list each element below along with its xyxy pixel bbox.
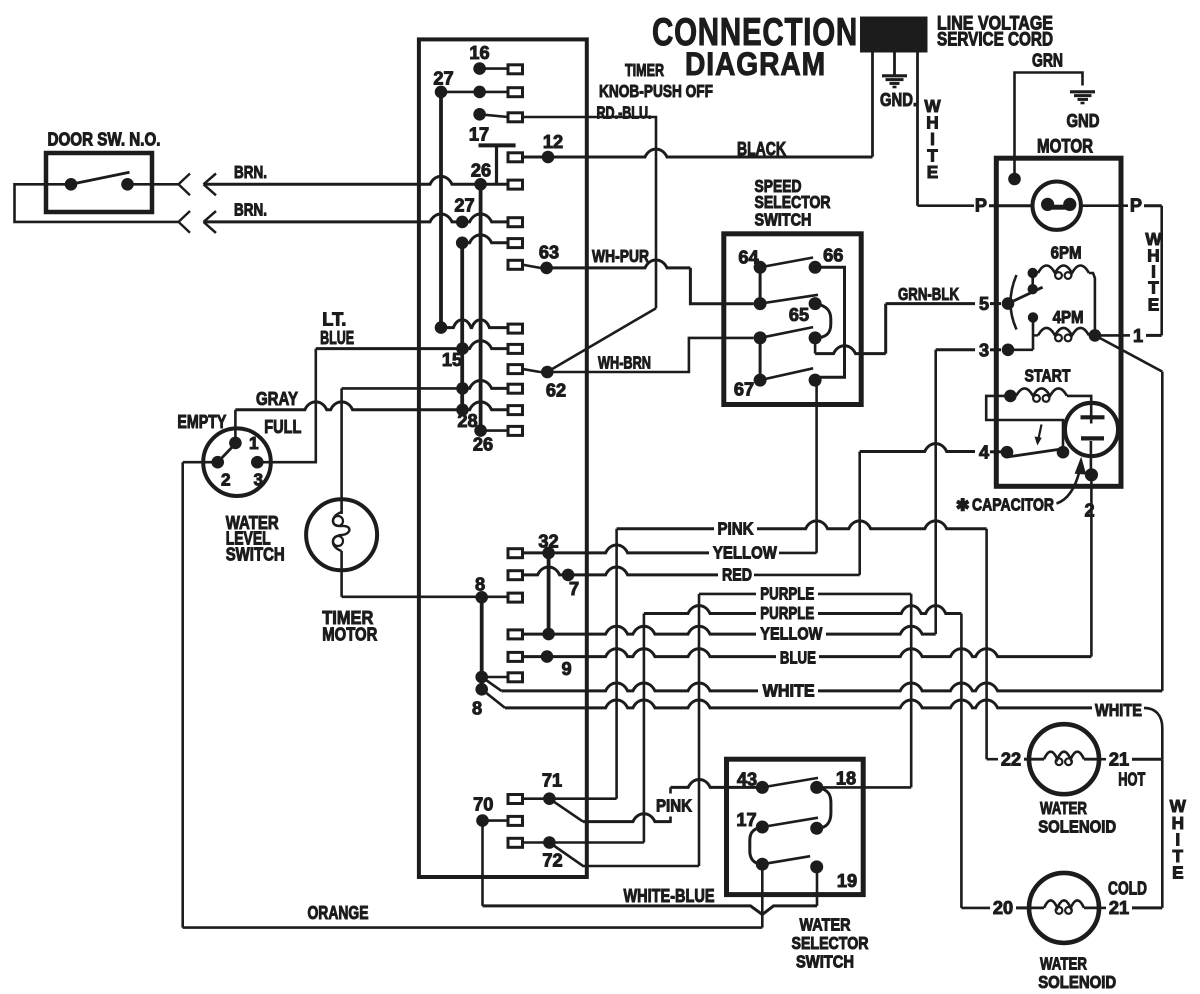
- node door left: [65, 178, 78, 191]
- svg-text:YELLOW: YELLOW: [713, 543, 777, 563]
- wire pink to 43 segment A: [583, 814, 671, 822]
- wire PURPLE2 left riser: [643, 614, 646, 843]
- wire 72 to purple riser: [522, 841, 644, 844]
- node 12: [542, 151, 555, 164]
- wire hot 21: [1098, 758, 1106, 761]
- cord ground stub: [893, 53, 896, 76]
- wire GRAY: [235, 402, 508, 410]
- lug 72: [508, 838, 523, 847]
- svg-text:GRN: GRN: [1032, 51, 1063, 71]
- wire YELLOW2 left part: [508, 626, 756, 634]
- node gray row: [456, 404, 469, 417]
- wire PURPLE1 left part: [699, 593, 756, 596]
- wire 1: [1121, 334, 1130, 337]
- wire white1 diagonal to motor 1: [1095, 335, 1162, 371]
- node 32: [542, 547, 555, 560]
- capacitor plate bottom: [1081, 436, 1104, 440]
- wire wl1 up: [234, 410, 237, 443]
- svg-text:P: P: [975, 196, 987, 216]
- svg-text:WH-PUR: WH-PUR: [592, 246, 649, 266]
- protector link: [1052, 205, 1066, 210]
- wire 6PM to node 1: [1089, 273, 1095, 335]
- wire WHITE-BLUE drop from 70: [481, 821, 484, 906]
- svg-text:2: 2: [221, 470, 231, 490]
- node 7: [562, 569, 575, 582]
- svg-text:LT.: LT.: [322, 310, 346, 330]
- svg-text:22: 22: [1001, 750, 1021, 770]
- wire 17 elbow: [750, 827, 763, 864]
- wire PURPLE1 left riser: [698, 594, 701, 866]
- wire 20: [961, 907, 990, 910]
- blade 4: [1009, 449, 1065, 457]
- node door right: [121, 178, 134, 191]
- wire timer motor to timer: [342, 387, 463, 390]
- svg-text:PINK: PINK: [656, 796, 693, 816]
- lug 62: [508, 365, 523, 374]
- contact 6PM: [1028, 268, 1038, 278]
- node 70: [476, 814, 489, 827]
- svg-text:E: E: [1172, 863, 1183, 883]
- motor ground symbol: [1070, 90, 1095, 93]
- svg-text:1: 1: [249, 433, 259, 453]
- wire PINK top left part: [617, 527, 714, 530]
- svg-text:9: 9: [561, 659, 571, 679]
- node mid-right: [810, 822, 823, 835]
- svg-text:16: 16: [469, 43, 489, 63]
- wire red riser to motor 4: [858, 452, 861, 575]
- node wl 2: [211, 456, 224, 469]
- svg-text:1: 1: [1133, 326, 1143, 346]
- wire terminal RD-BLU: [480, 114, 508, 117]
- node 28: [474, 424, 487, 437]
- svg-text:SWITCH: SWITCH: [226, 544, 285, 564]
- wire 4 to motor: [860, 444, 975, 452]
- node 27 top: [435, 86, 448, 99]
- timer bus A (27): [439, 92, 443, 326]
- wire 3 to 4PM contact: [1008, 317, 1033, 349]
- node 3: [1002, 344, 1015, 357]
- svg-text:WATER: WATER: [800, 915, 851, 935]
- wire BRN to 27: [204, 214, 509, 222]
- lug 8 top: [508, 593, 523, 602]
- node 5: [1002, 297, 1015, 310]
- node 8B: [475, 683, 488, 696]
- wire RED left part: [508, 567, 718, 575]
- wire door left loop: [15, 184, 179, 222]
- door switch box: [46, 153, 152, 212]
- lug 70: [508, 816, 523, 825]
- svg-text:E: E: [1148, 295, 1159, 315]
- svg-text:4PM: 4PM: [1053, 307, 1084, 327]
- lug 7: [508, 571, 523, 580]
- svg-text:PURPLE: PURPLE: [760, 583, 814, 603]
- lug 27 second: [508, 218, 523, 227]
- svg-text:19: 19: [837, 871, 857, 891]
- node 17: [756, 821, 769, 834]
- svg-text:ORANGE: ORANGE: [308, 903, 369, 923]
- wire 71 to pink riser: [522, 797, 617, 800]
- node 67: [754, 374, 767, 387]
- svg-text:3: 3: [254, 470, 264, 490]
- svg-text:✱: ✱: [956, 498, 969, 515]
- node 71: [543, 792, 556, 805]
- wire wl2 left: [183, 461, 218, 464]
- wire YELLOW(32) left part: [508, 545, 709, 553]
- svg-text:43: 43: [737, 770, 757, 790]
- timer bus 32-yellow: [547, 553, 551, 634]
- lug 9: [508, 652, 523, 661]
- svg-text:BRN.: BRN.: [234, 162, 267, 182]
- line cord plug (black block): [860, 17, 928, 53]
- wire orange riser from selector: [761, 864, 764, 927]
- wire door right out: [128, 183, 179, 186]
- node 8A: [475, 671, 488, 684]
- node rd-blu: [473, 108, 486, 121]
- wire timer motor bottom: [340, 551, 343, 597]
- wire lug to 62: [522, 369, 541, 372]
- node 15: [456, 342, 469, 355]
- wire WHITE drop from plug: [916, 53, 919, 206]
- node centrifugal right: [1057, 446, 1070, 459]
- lug 26: [508, 180, 523, 189]
- tick pink segment A: [669, 817, 672, 823]
- capacitor plate top: [1081, 415, 1105, 419]
- wire BLUE right part: [819, 649, 1091, 657]
- lug 16: [508, 65, 523, 74]
- wire WHITE to motor P: [918, 204, 975, 207]
- blade 17: [762, 818, 818, 827]
- wire WHITE1 diagonal: [482, 677, 502, 691]
- cord ground symbol: [882, 74, 907, 77]
- lug 28: [508, 426, 523, 435]
- wire blue riser to capacitor 2: [1090, 477, 1093, 656]
- svg-text:BRN.: BRN.: [234, 200, 267, 220]
- svg-text:GND.: GND.: [880, 90, 917, 110]
- lug 15: [508, 344, 523, 353]
- blade 67: [760, 368, 813, 380]
- svg-text:26: 26: [473, 435, 493, 455]
- wire left riser (orange): [181, 462, 184, 927]
- svg-text:RD.-BLU.: RD.-BLU.: [597, 103, 652, 123]
- node protector right: [1063, 198, 1076, 211]
- svg-text:GRN-BLK: GRN-BLK: [898, 284, 959, 304]
- svg-text:71: 71: [542, 771, 562, 791]
- wire node1 to terminal 1: [1095, 334, 1121, 337]
- connector chevron BRN2: [179, 211, 191, 233]
- wire YELLOW(32) right part: [779, 552, 817, 555]
- wire capacitor to 2: [1090, 441, 1093, 477]
- svg-text:START: START: [1025, 366, 1071, 386]
- terminal 17 tap stem: [495, 145, 498, 184]
- svg-text:21: 21: [1109, 898, 1129, 918]
- svg-text:6PM: 6PM: [1051, 243, 1082, 263]
- wire PURPLE2 right riser to cold 20: [960, 614, 963, 908]
- svg-text:8: 8: [472, 699, 482, 719]
- wire WHITE1 right part: [818, 683, 1162, 691]
- timer motor circle: [306, 499, 377, 570]
- svg-text:MOTOR: MOTOR: [322, 625, 377, 645]
- svg-text:27: 27: [433, 69, 453, 89]
- svg-text:63: 63: [539, 243, 559, 263]
- svg-text:SERVICE CORD: SERVICE CORD: [937, 30, 1053, 51]
- node 66: [809, 261, 822, 274]
- lug 71: [508, 795, 523, 804]
- wire 18 elbow: [817, 787, 831, 828]
- coil 6PM: [1038, 266, 1089, 274]
- blade water level: [218, 442, 238, 463]
- svg-text:EMPTY: EMPTY: [177, 412, 226, 432]
- node 43: [756, 781, 769, 794]
- wire 3 to motor: [936, 348, 975, 351]
- node 9: [541, 650, 554, 663]
- water level switch circle: [203, 428, 271, 496]
- svg-text:SWITCH: SWITCH: [796, 952, 854, 972]
- svg-text:67: 67: [734, 380, 754, 400]
- wire GRN-BLK to motor 5: [886, 302, 975, 305]
- hot water solenoid circle: [1029, 724, 1099, 794]
- svg-text:2: 2: [1084, 501, 1094, 521]
- wire 70 to lug: [483, 819, 509, 822]
- svg-text:20: 20: [993, 898, 1013, 918]
- contact 4PM: [1028, 312, 1038, 322]
- wire 8A to lug: [482, 676, 508, 679]
- svg-text:WHITE: WHITE: [763, 680, 815, 700]
- wire wl3 (full) to LT.BLUE: [257, 349, 316, 463]
- wire cold 21: [1098, 907, 1106, 910]
- wire BLACK: [522, 149, 873, 157]
- coil START: [1016, 388, 1067, 396]
- svg-text:17: 17: [736, 810, 756, 830]
- wire 65 elbow: [815, 304, 831, 338]
- svg-text:21: 21: [1109, 750, 1129, 770]
- node 26: [474, 178, 487, 191]
- lug yellow2: [508, 630, 523, 639]
- wire P to 1 link: [1160, 206, 1163, 336]
- blade 43: [762, 778, 818, 788]
- wire timer motor bottom to 8: [342, 595, 508, 598]
- svg-text:P: P: [1130, 196, 1142, 216]
- svg-text:17: 17: [469, 125, 489, 145]
- node 18: [810, 781, 823, 794]
- svg-text:4: 4: [979, 443, 990, 463]
- wire ORANGE: [183, 926, 763, 929]
- svg-text:18: 18: [836, 769, 856, 789]
- svg-text:WATER: WATER: [1040, 798, 1087, 818]
- timer bus B: [460, 243, 464, 410]
- svg-text:SOLENOID: SOLENOID: [1038, 816, 1116, 836]
- wire yellow2 riser to motor 3: [934, 350, 937, 634]
- lug 32: [508, 549, 523, 558]
- node 63: [540, 262, 553, 275]
- contact mid: [1028, 284, 1038, 294]
- wire pink to 43 segment B: [671, 780, 727, 788]
- wire white link 21-21: [1161, 759, 1164, 908]
- wire PURPLE2 left part: [644, 606, 756, 614]
- svg-text:PURPLE: PURPLE: [760, 603, 814, 623]
- node 4: [1001, 446, 1014, 459]
- wire row 2: [441, 91, 508, 94]
- node 67-right: [809, 374, 822, 387]
- svg-text:27: 27: [454, 196, 474, 216]
- lug row2: [508, 88, 523, 97]
- blade 64: [760, 258, 813, 268]
- node wl 1: [229, 437, 242, 450]
- svg-text:65: 65: [789, 305, 809, 325]
- node speed low-right: [809, 331, 822, 344]
- wire GRN from motor frame to ground: [1015, 73, 1083, 180]
- coil cold solenoid: [1044, 900, 1084, 908]
- node row2: [473, 86, 486, 99]
- tick pink segment B: [669, 787, 672, 793]
- svg-text:72: 72: [542, 851, 562, 871]
- timer bus C (26-28): [479, 184, 483, 430]
- svg-text:WH-BRN: WH-BRN: [598, 353, 651, 373]
- wire PINK riser: [615, 529, 618, 799]
- svg-text:HOT: HOT: [1118, 770, 1145, 790]
- wire BLACK drop from plug: [871, 53, 874, 157]
- wire white1 riser: [1161, 372, 1164, 691]
- wire WHITE2 hook to hot 21: [1144, 708, 1162, 759]
- speed selector switch box: [724, 234, 861, 405]
- svg-text:SELECTOR: SELECTOR: [792, 933, 869, 953]
- wire row 28: [481, 429, 508, 432]
- node 8 top: [475, 591, 488, 604]
- svg-text:62: 62: [546, 381, 566, 401]
- node start-left: [1004, 390, 1017, 403]
- cold water solenoid circle: [1029, 873, 1099, 943]
- lug gray row: [508, 406, 523, 415]
- wire purple1 from 72: [549, 843, 699, 867]
- svg-text:26: 26: [471, 161, 491, 181]
- svg-text:WHITE-BLUE: WHITE-BLUE: [624, 886, 715, 906]
- wire P right: [1081, 204, 1128, 207]
- node motor 1: [1089, 329, 1102, 342]
- svg-text:BLUE: BLUE: [320, 328, 354, 348]
- svg-text:YELLOW: YELLOW: [760, 624, 822, 644]
- node motor frame ground: [1008, 173, 1021, 186]
- svg-text:BLACK: BLACK: [737, 139, 786, 159]
- capacitor circle: [1065, 403, 1118, 456]
- lug timer-motor row: [508, 384, 523, 393]
- blade door switch: [71, 172, 130, 184]
- svg-text:RED: RED: [722, 565, 752, 585]
- svg-text:BLUE: BLUE: [780, 647, 816, 667]
- svg-text:5: 5: [979, 294, 989, 314]
- svg-text:COLD: COLD: [1108, 879, 1147, 899]
- water selector switch box: [727, 759, 864, 894]
- node 62: [541, 366, 554, 379]
- node low-left: [756, 858, 769, 871]
- node 64: [754, 261, 767, 274]
- wire WHITE-BLUE: [483, 906, 818, 915]
- wire terminal 16: [480, 67, 508, 70]
- node 72: [543, 836, 556, 849]
- coil 4PM: [1038, 328, 1089, 336]
- svg-text:KNOB-PUSH OFF: KNOB-PUSH OFF: [599, 81, 713, 101]
- wire 64 to mid-left: [759, 267, 762, 303]
- svg-text:70: 70: [473, 795, 493, 815]
- wire 18 out: [817, 786, 912, 789]
- node 65: [809, 297, 822, 310]
- svg-text:WATER: WATER: [1040, 954, 1087, 974]
- timer motor coil: [333, 512, 350, 551]
- node bus-B head: [456, 237, 469, 250]
- wire BLUE left part: [508, 649, 776, 657]
- wire WHITE1 left part: [502, 683, 759, 691]
- svg-text:DIAGRAM: DIAGRAM: [685, 46, 826, 82]
- svg-text:12: 12: [543, 132, 563, 152]
- wire WHITE2: [505, 700, 1092, 708]
- terminal 17 tap bar: [479, 143, 516, 147]
- lug rd-blu: [508, 113, 523, 122]
- node timer-motor row: [456, 382, 469, 395]
- wire pink(43) diagonal from 71: [549, 799, 583, 822]
- timer box: [419, 39, 587, 877]
- wire YELLOW2 right part: [826, 626, 936, 634]
- wire GRN-BLK exit: [814, 338, 817, 354]
- svg-text:WHITE: WHITE: [1095, 700, 1142, 720]
- svg-text:66: 66: [823, 246, 843, 266]
- svg-text:SWITCH: SWITCH: [755, 210, 812, 230]
- node protector left: [1041, 198, 1054, 211]
- motor protector circle: [1033, 182, 1081, 230]
- node 27 second: [456, 216, 469, 229]
- node wl 3: [251, 456, 264, 469]
- svg-text:7: 7: [569, 579, 579, 599]
- wire 22: [987, 758, 998, 761]
- wire RED right part: [754, 574, 860, 577]
- connector arrow BRN1: [204, 174, 217, 196]
- motor box: [996, 158, 1121, 486]
- node speed low-left: [754, 331, 767, 344]
- node 16: [473, 62, 486, 75]
- timer bus 8: [480, 597, 484, 689]
- node speed mid-left: [754, 297, 767, 310]
- svg-text:MOTOR: MOTOR: [1037, 137, 1093, 158]
- node capacitor 2: [1085, 468, 1098, 481]
- wire LT.BLUE to 15: [316, 341, 508, 349]
- wire bus-B head row: [462, 235, 508, 243]
- capacitor pointer: [1057, 471, 1080, 504]
- wire PINK top right part: [757, 521, 987, 529]
- svg-text:FULL: FULL: [264, 417, 301, 437]
- lug 63: [508, 260, 523, 269]
- node bus-A bottom: [435, 321, 448, 334]
- wire PINK riser to hot solenoid: [985, 529, 988, 759]
- svg-text:DOOR SW. N.O.: DOOR SW. N.O.: [48, 130, 161, 150]
- contact link: [1031, 273, 1034, 289]
- wire WH-BRN: [540, 338, 754, 372]
- connector arrow BRN2: [204, 211, 217, 233]
- node yellow2: [542, 628, 555, 641]
- connector chevron BRN1: [179, 174, 191, 196]
- svg-text:CAPACITOR: CAPACITOR: [972, 495, 1054, 515]
- wire low-left to 67: [759, 338, 762, 380]
- wire BRN to 26: [204, 176, 509, 184]
- svg-text:3: 3: [979, 341, 989, 361]
- svg-text:28: 28: [457, 411, 477, 431]
- wire 66 to 67-right: [815, 267, 844, 377]
- lug 8A: [508, 673, 523, 682]
- wire start coil to capacitor: [1067, 396, 1091, 424]
- wire start to centrifugal contact: [986, 396, 1063, 452]
- blade low: [762, 856, 810, 864]
- centrifugal arrow: [1038, 425, 1042, 444]
- svg-text:E: E: [927, 162, 938, 182]
- blade 5: [1008, 287, 1043, 303]
- wire timer motor top: [340, 388, 343, 514]
- wire yellow riser to speed selector: [815, 380, 818, 553]
